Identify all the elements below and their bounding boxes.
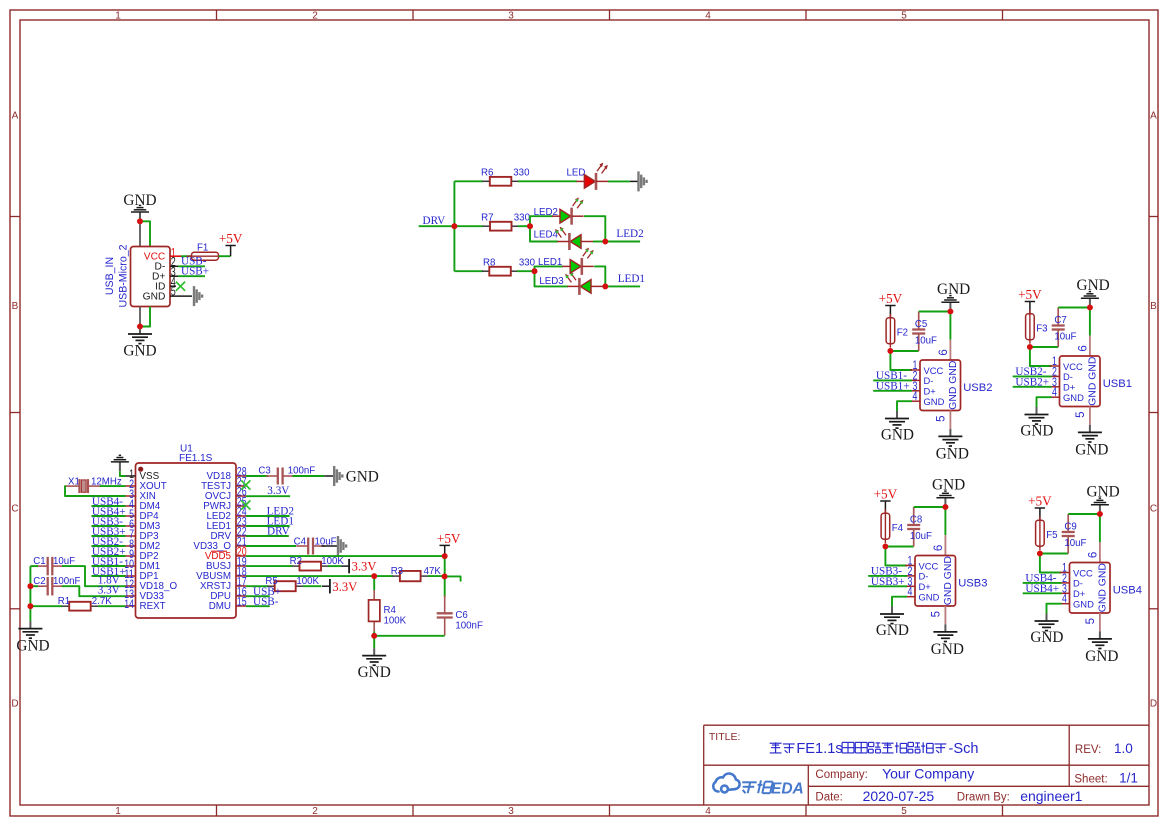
svg-text:VCC: VCC [1073,567,1093,578]
svg-text:GND: GND [937,281,970,298]
pin 5 lead (USB4) [1099,613,1101,631]
svg-text:C9: C9 [1064,522,1076,533]
pin 6 lead (USB1) [1089,336,1091,356]
svg-text:REV:: REV: [1075,744,1101,756]
wire net USB2+ (USB1) [1013,386,1052,388]
wire fuse to VCC (USB1) [1030,347,1052,366]
svg-text:GND: GND [346,469,379,486]
svg-text:B: B [1150,301,1157,312]
wire VCC to fuse F1 [181,255,192,257]
pin 6 lead (USB2) [949,340,951,360]
wire net USB2+ (U1) [92,555,126,557]
pin 20 VDD5 of U1 [205,545,247,563]
pin 21 VD33_O of U1 [193,535,246,553]
resistor R1 [62,602,99,611]
svg-text:C8: C8 [910,515,922,526]
svg-text:F3: F3 [1036,324,1047,335]
svg-text:LED3: LED3 [539,276,563,287]
svg-text:GND: GND [123,343,156,360]
junction fuse-out (USB4) [1037,551,1043,557]
wire to R8 [454,270,483,272]
resistor R7 [483,222,520,231]
svg-text:A: A [1150,111,1157,122]
svg-text:1: 1 [115,10,121,21]
svg-text:GND: GND [1077,277,1110,294]
pin 5 lead (USB3) [944,606,946,624]
wire LED3 to junction [603,285,605,287]
capacitor C8 [907,507,920,547]
svg-text:+5V: +5V [1028,493,1052,508]
svg-text:GND: GND [1087,484,1120,501]
svg-text:R7: R7 [481,213,493,224]
svg-text:+5V: +5V [437,531,461,546]
ground GND (divider) [362,648,386,665]
pin names (USB4) [1073,563,1109,612]
wire net USB4+ (USB4) [1023,592,1062,594]
svg-text:10uF: 10uF [910,531,932,542]
junction R3-C6 [442,574,448,580]
svg-text:R8: R8 [483,257,495,268]
svg-text:C: C [11,504,18,515]
ground GND (bottom of USB_IN) [128,327,152,344]
pin 1 marker dot [138,467,143,472]
wire DRV vertical bus [453,181,455,271]
pin 2 stub [170,265,178,267]
svg-text:GND: GND [1075,441,1108,458]
wire net USB1+ (U1) [92,575,126,577]
svg-text:330: 330 [513,167,530,178]
junction (LED1 net) [602,284,608,290]
power flag 3.3V (R2) [341,559,349,573]
wire R6 to LED [518,180,577,182]
wire up to LED2 [530,216,553,226]
wire R4 to gnd node [373,631,375,635]
svg-text:engineer1: engineer1 [1020,788,1082,804]
svg-text:330: 330 [514,213,531,224]
svg-text:REXT: REXT [140,601,166,612]
pin 23 LED1 of U1 [206,515,246,533]
resistor R4 [369,590,380,632]
wire fuse to VCC (USB4) [1040,554,1062,573]
svg-text:10uF: 10uF [915,336,937,347]
wire gnd down to pin6 (USB3) [944,507,946,535]
svg-text:GND: GND [924,396,945,407]
svg-text:6: 6 [1087,552,1099,558]
svg-text:GND: GND [1085,648,1118,665]
pin 5 DP4 of U1 [126,507,160,522]
wire pin4 to ground (USB1) [1037,397,1052,407]
pin stubs (USB2) [910,370,920,401]
wire pin20 VDD5 to +5V [246,555,445,557]
svg-text:+5V: +5V [1018,287,1042,302]
junction (USB_IN top shield node) [137,218,143,224]
power flag +5V (U1) [440,545,450,556]
svg-text:USB3: USB3 [958,578,987,590]
svg-text:D+: D+ [1073,588,1086,599]
ground GND pin4 (USB4) [1035,614,1059,631]
svg-text:F1: F1 [197,242,208,253]
no-connect flag TESTJ pin27 [241,480,250,489]
pin 1 VSS of U1 [126,467,160,482]
sheet title text [770,742,782,753]
pin 6 lead (USB4) [1099,542,1101,562]
diode LED (red) [576,163,608,190]
pin shield-top of USB_IN [139,221,141,247]
wire pin24 LED2 [246,515,290,517]
svg-text:USB1+: USB1+ [876,381,910,393]
svg-text:3: 3 [508,806,514,817]
junction rail-C2 [28,583,34,589]
logo text 立创EDA [742,782,756,793]
resistor R3 [392,571,428,581]
wire gnd to cap (USB2) [919,311,951,313]
pin 5 lead (USB1) [1089,407,1091,425]
svg-text:USB1: USB1 [1103,378,1132,390]
svg-text:R3: R3 [391,566,403,577]
pin 24 LED2 of U1 [206,505,246,523]
wire (shield top jog) [140,221,150,247]
svg-text:D+: D+ [919,581,932,592]
svg-text:Your Company: Your Company [882,765,974,781]
svg-text:1.0: 1.0 [1114,741,1133,756]
capacitor C4 [296,538,325,555]
wire up to LED1 [535,266,564,271]
svg-text:3.3V: 3.3V [267,485,289,497]
svg-text:USB+: USB+ [181,266,209,278]
wire pin19 to R2 [246,565,293,567]
svg-text:VCC: VCC [919,560,939,571]
pin names (USB2) [924,361,960,410]
svg-text:6: 6 [938,349,950,355]
wire to R7 [454,225,483,227]
svg-text:100nF: 100nF [455,620,483,631]
svg-text:C: C [1150,504,1157,515]
wire crystal to XIN pin3 [65,486,126,496]
svg-text:D+: D+ [1063,382,1076,393]
wire R8 to junction [517,270,535,272]
ground GND pin5 (USB4) [1088,631,1112,648]
pin 10 DM1 of U1 [124,557,160,572]
wire C2 left to rail [30,585,38,587]
svg-text:TITLE:: TITLE: [709,731,741,743]
svg-text:5: 5 [935,415,947,421]
pin 5 GND lead [170,295,192,297]
svg-text:3.3V: 3.3V [98,584,120,596]
junction gnd-cap (USB4) [1097,511,1103,517]
wire crystal to XOUT pin2 [100,485,126,487]
pin 5 lead (USB2) [949,411,951,429]
ground GND pin4 (USB1) [1025,407,1049,424]
wire net USB3+ (USB3) [868,585,907,587]
junction fuse-out (USB2) [888,348,894,354]
svg-text:VCC: VCC [1063,361,1083,372]
svg-text:GND: GND [1063,392,1084,403]
svg-text:4: 4 [705,806,711,817]
svg-text:GND: GND [1073,599,1094,610]
svg-text:1: 1 [115,806,121,817]
svg-text:DRV: DRV [423,215,446,227]
pin 4 stub [170,285,176,287]
resistor R8 [482,267,519,276]
svg-text:5: 5 [930,611,942,617]
wire fuse node to cap (USB4) [1040,553,1068,555]
junction R4-C6 bottom [371,633,377,639]
svg-text:USB4+: USB4+ [1025,583,1059,595]
svg-text:USB2: USB2 [963,382,992,394]
svg-text:LED: LED [567,168,586,179]
wire gnd to cap (USB3) [914,506,946,508]
wire fuse to VCC (USB3) [885,547,907,566]
svg-text:Company:: Company: [815,769,867,781]
svg-text:D: D [11,699,18,710]
junction dots overlay [28,218,1103,638]
wire pin21 to C4 [246,545,296,547]
svg-text:FE1.1s: FE1.1s [796,741,842,757]
fuse F1 [187,252,224,260]
resistor R6 [482,177,519,186]
svg-text:GND: GND [143,291,166,302]
svg-text:D: D [1150,699,1157,710]
svg-text:USB4: USB4 [1113,585,1142,597]
svg-text:Sheet:: Sheet: [1074,773,1107,785]
junction fuse-out (USB3) [883,544,889,550]
wire down to LED3 [535,271,569,286]
svg-text:LED2: LED2 [616,228,643,240]
svg-text:100nF: 100nF [288,465,316,476]
connector USB2 body [920,360,961,411]
svg-text:D-: D- [919,571,929,582]
svg-text:EDA: EDA [771,781,804,798]
capacitor C1 [36,557,65,576]
junction fuse-out (USB1) [1027,344,1033,350]
svg-text:DMU: DMU [209,601,231,612]
pin 26 OVCJ of U1 [205,485,247,503]
ground GND pin5 (USB1) [1078,425,1102,442]
ground rail left [29,566,31,621]
junction gnd-cap (USB1) [1087,305,1093,311]
wire pin15 DMU [246,605,270,607]
capacitor C9 [1062,514,1075,554]
svg-text:2020-07-25: 2020-07-25 [863,788,935,804]
svg-text:GND GND: GND GND [948,361,959,410]
pin numbers (USB2) [913,349,950,422]
svg-text:GND: GND [1020,423,1053,440]
capacitor C7 [1052,308,1065,348]
connector USB1 body [1060,356,1101,407]
svg-text:DRV: DRV [267,526,290,538]
svg-text:USB-: USB- [253,596,279,608]
wire pin17 to R5 [246,585,268,587]
chip U1 body [136,463,237,618]
wire net USB4- (U1) [92,505,126,507]
wire LED1 net stub [605,285,640,287]
pin 2 XOUT of U1 [126,477,167,492]
svg-text:F5: F5 [1046,530,1057,541]
wire net USB1- (U1) [92,565,126,567]
wire gnd down to pin6 (USB4) [1099,514,1101,542]
wire (shield bottom jog) [140,307,150,327]
capacitor C2 [36,577,65,596]
fuse F5 [1036,516,1045,550]
wire net USB3- (U1) [92,525,126,527]
wire DRV into junction [419,225,455,227]
wire gnd to cap (USB4) [1068,513,1100,515]
wire net USB3+ (U1) [92,535,126,537]
svg-text:D+: D+ [924,386,937,397]
pin 3 stub [170,275,178,277]
svg-text:2: 2 [312,806,318,817]
pin 12 VD18_O of U1 [124,577,177,592]
ground symbol GND (C3) [324,466,342,486]
wire R1 to REXT pin14 [98,605,126,607]
wire R7 to junction [518,225,530,227]
wire R5 to 3.3V [303,585,321,587]
connector USB4 body [1070,563,1111,614]
svg-text:C7: C7 [1054,315,1066,326]
resistor R2 [292,562,329,571]
power flag +5V (USB1) [1025,302,1035,314]
svg-text:+5V: +5V [879,291,903,306]
svg-text:GND: GND [919,592,940,603]
wire LED1 to corner [594,266,605,286]
pin 25 PWRJ of U1 [203,495,247,513]
wire gnd to pin 1 [120,471,126,476]
pin stubs (USB3) [905,566,915,597]
svg-text:USB-Micro_2: USB-Micro_2 [118,244,130,307]
svg-text:4: 4 [705,10,711,21]
wire rail to R1 [30,605,62,607]
wire to R6 [454,180,483,182]
wire pin18 VBUSM to divider [246,575,374,577]
wire net USB2- (USB1) [1013,375,1052,377]
fuse F4 [881,509,890,543]
svg-text:5: 5 [901,10,907,21]
wire pin28 to C3 [246,475,268,477]
pin 17 XRSTJ of U1 [200,575,247,593]
pin 27 TESTJ of U1 [201,475,247,493]
pin 14 REXT of U1 [124,597,165,612]
pin numbers (USB4) [1062,552,1099,625]
svg-text:USB_IN: USB_IN [104,257,116,295]
wire fuse to VCC (USB2) [890,351,912,370]
wire fuse node to cap (USB1) [1030,346,1058,348]
junction (USB_IN bottom shield node) [137,324,143,330]
diode LED3 (green, mirrored) [565,272,603,295]
no-connect flag on ID pin [176,282,185,291]
svg-text:USB2+: USB2+ [1015,377,1049,389]
wire C3 to ground [293,475,325,477]
ground GND pin4 (USB3) [880,607,904,624]
wire net USB2- (U1) [92,545,126,547]
svg-text:D-: D- [1063,371,1073,382]
wire fuse node to cap (USB3) [885,546,913,548]
svg-text:GND: GND [123,192,156,209]
ground symbol (C4) [322,536,347,556]
pin names (USB1) [1063,357,1099,406]
pin numbers (USB1) [1052,345,1089,418]
svg-text:100K: 100K [384,615,407,626]
svg-text:5: 5 [901,806,907,817]
ground symbol (USB_IN pin 5) [194,286,202,306]
power flag +5V (USB_IN) [225,246,235,257]
svg-text:D-: D- [924,375,934,386]
svg-text:5: 5 [1075,411,1087,417]
junction (R7 out) [527,223,533,229]
power flag 3.3V (R5) [322,579,330,593]
power flag +5V (USB4) [1035,508,1045,520]
junction gnd-cap (USB2) [948,309,954,315]
wire divider to R3 [374,575,393,577]
wire pin4 to ground (USB2) [897,401,912,411]
pin 22 DRV of U1 [210,525,246,543]
wire LED2 to corner [584,216,605,241]
pin numbers (USB3) [908,545,945,618]
svg-text:GND: GND [876,622,909,639]
svg-text:-Sch: -Sch [949,741,979,757]
wire net USB3- (USB3) [868,575,907,577]
connector USB3 body [915,556,956,607]
svg-text:6: 6 [933,545,945,551]
svg-text:1/1: 1/1 [1119,770,1138,785]
capacitor C5 [912,312,925,352]
connector USB_IN USB-Micro_2 body [131,247,171,307]
wire gnd down to pin6 (USB1) [1089,308,1091,336]
diode LED2 (green) [552,197,584,224]
svg-text:6: 6 [1077,345,1089,351]
svg-text:R6: R6 [481,167,493,178]
svg-text:D-: D- [1073,578,1083,589]
wire C1 to pin 12 net [62,566,126,586]
wire divider down to R4 [373,576,375,590]
wire net USB4+ (U1) [92,515,126,517]
pin 6 DM3 of U1 [126,517,161,532]
svg-text:10uF: 10uF [1054,332,1076,343]
wire pin22 DRV [246,535,289,537]
ground GND pin5 (USB2) [938,429,962,446]
junction rail-R1 [28,603,34,609]
fuse F2 [886,314,895,348]
svg-text:3.3V: 3.3V [352,560,377,574]
wire pin26 OVCJ to 3.3V net [246,495,290,497]
wire F1 to +5V [219,255,231,257]
wire net USB+ (pin3) [178,275,205,277]
wire down to LED4 [530,226,558,241]
svg-text:Drawn By:: Drawn By: [957,792,1010,804]
wire pin23 LED1 [246,525,290,527]
svg-text:GND GND: GND GND [1098,563,1109,612]
capacitor C3 [266,468,295,485]
svg-text:3: 3 [508,10,514,21]
wire net USB1- (USB2) [873,379,912,381]
pin 7 DP3 of U1 [126,527,160,542]
svg-text:VCC: VCC [924,365,944,376]
svg-text:2: 2 [312,10,318,21]
fuse F3 [1026,310,1035,344]
wire net USB4- (USB4) [1023,582,1062,584]
svg-text:GND: GND [881,427,914,444]
wire pin16 DPU [246,595,270,597]
svg-text:Date:: Date: [815,792,843,804]
ground GND (left rail) [18,621,42,638]
wire net USB- (pin2) [178,265,205,267]
svg-text:A: A [12,111,19,122]
wire gnd down to pin6 (USB2) [949,312,951,340]
pin 15 DMU of U1 [209,595,247,613]
svg-text:GND GND: GND GND [943,556,954,605]
pin 13 VD33 of U1 [124,587,164,602]
power flag +5V (USB3) [880,501,890,513]
wire R3 to +5V node [428,575,445,577]
